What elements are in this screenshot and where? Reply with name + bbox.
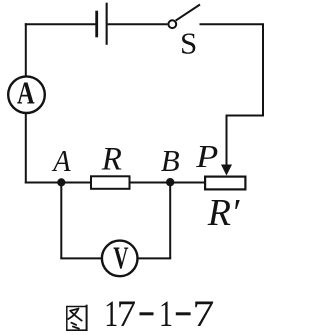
svg-text:S: S	[180, 25, 197, 60]
svg-text:B: B	[161, 143, 180, 178]
svg-text:R′: R′	[207, 192, 240, 234]
svg-text:7: 7	[192, 294, 214, 335]
svg-text:R: R	[101, 142, 122, 178]
svg-text:A: A	[51, 143, 71, 178]
svg-text:1: 1	[159, 294, 173, 335]
svg-text:A: A	[17, 76, 35, 111]
svg-text:V: V	[113, 239, 128, 275]
svg-text:P: P	[195, 138, 218, 174]
svg-text:7: 7	[117, 294, 137, 335]
